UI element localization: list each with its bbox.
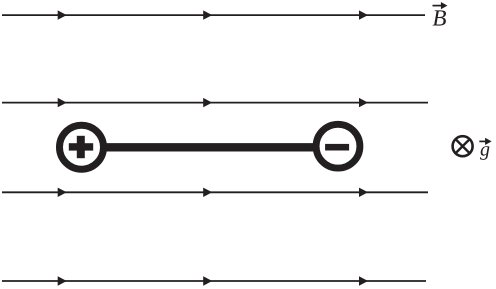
arrowhead line4 a bbox=[58, 276, 67, 285]
arrowhead line1 a bbox=[58, 10, 67, 19]
arrowhead line1 c bbox=[359, 10, 368, 19]
plus sign bbox=[69, 136, 93, 158]
positive charge circle bbox=[60, 125, 104, 169]
arrowhead line3 b bbox=[203, 188, 212, 197]
minus sign bbox=[325, 144, 349, 151]
dumbbell rod bbox=[81, 143, 338, 151]
field line 4 bbox=[2, 280, 426, 282]
arrowhead line2 b bbox=[203, 98, 212, 107]
field line 3 bbox=[2, 191, 428, 193]
negative charge circle bbox=[316, 124, 360, 168]
label B vector bbox=[433, 2, 448, 26]
arrowhead line4 b bbox=[203, 276, 212, 285]
arrowhead line4 c bbox=[359, 276, 368, 285]
field line 2 bbox=[2, 102, 428, 104]
arrowhead line3 a bbox=[58, 188, 67, 197]
arrowhead line2 c bbox=[359, 98, 368, 107]
field line 1 bbox=[2, 14, 425, 16]
arrowhead line3 c bbox=[359, 188, 368, 197]
label g vector bbox=[479, 138, 491, 160]
arrowhead line2 a bbox=[58, 98, 67, 107]
arrowhead line1 b bbox=[203, 10, 212, 19]
gravity into-page symbol bbox=[453, 136, 473, 156]
